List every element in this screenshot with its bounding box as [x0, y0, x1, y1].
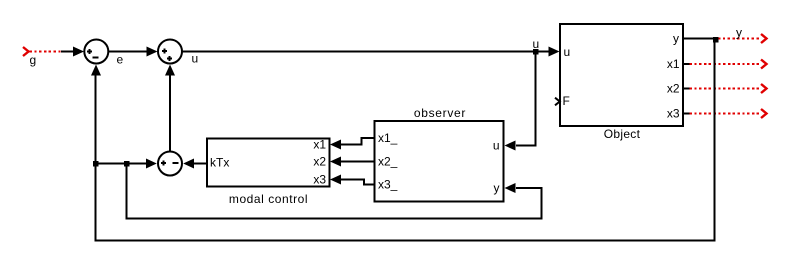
arrowhead into modal x2: [330, 157, 341, 167]
wire u: S2 to Object: [183, 51, 550, 53]
wire observer x1_ jog down: [361, 137, 363, 146]
wire inner feedback vertical right: [541, 187, 543, 220]
wire kTx output to S3: [194, 163, 208, 165]
svg-text:u: u: [533, 37, 540, 51]
wire observer x3_ jog up: [363, 179, 365, 186]
wire g dotted (red): [30, 51, 63, 53]
wire into modal x1: [341, 144, 363, 146]
svg-text:u: u: [493, 139, 500, 153]
wire into modal x3: [341, 179, 365, 181]
svg-text:y: y: [673, 32, 679, 46]
svg-text:kTx: kTx: [210, 156, 229, 170]
wire outer feedback vertical right: [714, 39, 716, 242]
wire observer x2_ to modal x2: [341, 161, 374, 163]
junction dot y-branch: [713, 37, 719, 43]
output marker x1 (red chevron): [761, 60, 767, 69]
arrowhead into S2 bottom: [165, 65, 175, 76]
wire inner feedback vertical left: [126, 164, 128, 220]
svg-text:e: e: [117, 53, 124, 67]
block modal control: [207, 139, 330, 187]
wire y out of Object: [683, 38, 716, 40]
arrowhead into Object u: [549, 47, 560, 57]
red dotted wire x2 out: [684, 88, 690, 90]
wire S3 up to S2: [169, 75, 171, 152]
red dotted wire y out: [718, 38, 760, 40]
svg-text:x3: x3: [313, 173, 326, 187]
S1 plus sign: [87, 51, 92, 53]
S1 minus sign: [93, 57, 99, 59]
svg-text:x3: x3: [667, 107, 680, 121]
summing junction S1: [84, 40, 108, 64]
wire inner feedback bottom: [126, 218, 543, 220]
svg-text:x1_: x1_: [378, 131, 398, 145]
wire u branch down to observer: [535, 52, 537, 147]
junction dot1 on left feedback: [93, 161, 99, 167]
Object unconnected input marker F: [555, 98, 560, 106]
block Object: [560, 24, 683, 126]
output marker x3 (red chevron): [761, 109, 767, 118]
arrowhead into S1 bottom: [91, 65, 101, 76]
svg-text:x2: x2: [313, 155, 326, 169]
svg-text:Object: Object: [604, 127, 641, 141]
S3 plus sign: [161, 162, 166, 164]
junction dot2: [124, 161, 130, 167]
wire outer feedback bottom: [95, 240, 716, 242]
summing junction S2: [158, 40, 182, 64]
arrowhead into S2: [147, 47, 158, 57]
svg-text:u: u: [564, 45, 571, 59]
arrowhead into sum1: [73, 47, 84, 57]
wire observer x3_ stub: [363, 184, 374, 186]
red dotted wire x1 out: [684, 63, 690, 65]
arrowhead into modal x1: [330, 140, 341, 150]
output marker x2 (red chevron): [761, 84, 767, 93]
wire dot1 to dot2: [96, 163, 128, 165]
wire e: S1 to S2: [109, 51, 149, 53]
svg-text:x2_: x2_: [378, 155, 398, 169]
red dotted wire x3 out: [684, 113, 690, 115]
wire g solid into sum1: [61, 51, 74, 53]
output marker y (red chevron): [761, 34, 767, 43]
junction dot u-branch: [533, 49, 539, 55]
wire into observer y: [516, 187, 543, 189]
wire observer x1_ stub: [361, 137, 374, 139]
input marker g (red chevron): [23, 47, 29, 56]
wire outer feedback vertical left up to S1: [95, 74, 97, 242]
svg-text:x1: x1: [667, 57, 680, 71]
svg-text:modal control: modal control: [229, 192, 308, 206]
S2 plus sign left: [162, 50, 167, 52]
arrowhead into observer u: [505, 141, 516, 151]
svg-text:y: y: [494, 181, 500, 195]
svg-text:x1: x1: [313, 138, 326, 152]
svg-text:x3_: x3_: [378, 178, 398, 192]
svg-text:y: y: [736, 26, 742, 40]
svg-text:g: g: [30, 53, 37, 67]
svg-text:F: F: [563, 94, 570, 108]
arrowhead into observer y: [505, 183, 516, 193]
arrowhead into modal x3: [330, 175, 341, 185]
svg-text:x2: x2: [667, 82, 680, 96]
arrowhead into S3 left: [146, 159, 157, 169]
summing junction S3: [158, 152, 182, 176]
wire dot2 to S3: [127, 163, 148, 165]
svg-text:u: u: [192, 52, 199, 66]
arrowhead into S3 right: [183, 159, 194, 169]
S3 minus sign: [173, 162, 179, 164]
S2 plus sign bottom: [167, 58, 172, 60]
block observer: [375, 121, 504, 202]
svg-text:observer: observer: [414, 106, 466, 120]
wire u branch horizontal to observer: [516, 145, 537, 147]
